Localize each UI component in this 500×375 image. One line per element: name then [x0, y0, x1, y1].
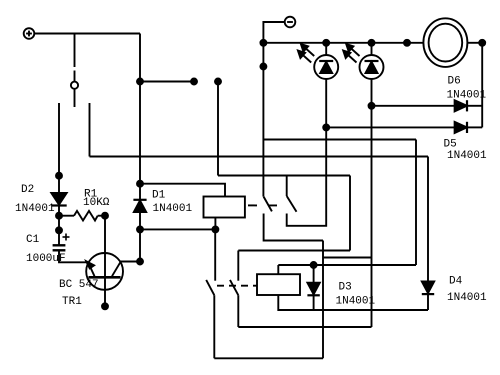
- svg-text:1N4001: 1N4001: [447, 150, 487, 162]
- resistor R1: [59, 211, 105, 221]
- wire x=323: [322, 241, 324, 359]
- svg-text:D4: D4: [449, 276, 463, 288]
- node coil1 bottom junction: [212, 226, 218, 232]
- LED2: [343, 43, 383, 79]
- svg-text:D6: D6: [448, 76, 461, 88]
- node D1 bottom: [137, 226, 143, 232]
- wire C1 bottom to emitter: [59, 250, 87, 262]
- node bus LED2: [369, 40, 375, 46]
- svg-text:1N4001: 1N4001: [447, 292, 487, 304]
- plus terminal: [24, 28, 35, 39]
- svg-text:1N4001: 1N4001: [336, 296, 376, 308]
- switch SW-D blade: [230, 280, 238, 295]
- node bus right corner: [479, 40, 485, 46]
- node C1 top: [56, 227, 62, 233]
- wire coil2 top lead: [277, 265, 279, 274]
- relay coil 1: [204, 197, 245, 218]
- wire y=139.5: [263, 139, 416, 141]
- svg-text:1N4001: 1N4001: [447, 90, 487, 102]
- svg-text:1N4001: 1N4001: [153, 203, 193, 215]
- wire positive rail down x=140: [139, 34, 141, 184]
- switch SW-B blade: [287, 196, 297, 212]
- bus top rail: [263, 42, 423, 44]
- capacitor C1: [53, 216, 70, 251]
- node terminal x=218: [215, 79, 221, 85]
- node D3 top: [311, 262, 317, 268]
- diode D3: [307, 265, 319, 310]
- pushbutton S1: [71, 34, 78, 108]
- node R1 right / base junction: [102, 213, 108, 219]
- wire coil2 bottom lead: [278, 295, 428, 310]
- node collector junction: [137, 259, 143, 265]
- node junction D2 top: [56, 173, 62, 179]
- switch SW-C blade: [206, 280, 214, 295]
- wire y=250.5: [238, 250, 350, 252]
- svg-text:D5: D5: [444, 139, 457, 151]
- node D1 top: [137, 181, 143, 187]
- diode D2: [51, 176, 66, 216]
- svg-text:1000uF: 1000uF: [26, 253, 66, 265]
- diode D4: [422, 282, 434, 311]
- node bus mid: [404, 40, 410, 46]
- wire SW-B bottom: [287, 79, 327, 226]
- node junction D2/R1/C1: [56, 213, 62, 219]
- wire x=350: [349, 176, 351, 251]
- wire SW-D bottom: [237, 295, 239, 327]
- wire x=416 down: [415, 140, 417, 266]
- switch SW-D top: [237, 251, 239, 281]
- node stub right: [191, 79, 197, 85]
- wire top-left rail: [34, 33, 140, 35]
- svg-text:TR1: TR1: [62, 296, 82, 308]
- svg-text:10KΩ: 10KΩ: [83, 197, 110, 209]
- wire D1 to coil1 top: [140, 184, 225, 197]
- wire pushbutton left contact to D2: [58, 103, 60, 176]
- wire link y=257.5: [323, 257, 372, 259]
- bus right segment: [468, 42, 483, 44]
- wire SW-A bottom: [264, 214, 323, 241]
- wire y=327: [238, 326, 371, 328]
- wire minus to rail: [263, 22, 284, 197]
- diode D1: [133, 184, 146, 262]
- wire base lead down through TR1: [104, 216, 106, 307]
- node base bottom terminal: [102, 303, 108, 309]
- svg-text:D3: D3: [339, 282, 352, 294]
- wire y=229.4 to D1: [140, 228, 215, 230]
- wire y=265 coil2 top rail: [278, 264, 416, 266]
- diode D6-1N4001 (upper right): [372, 100, 483, 111]
- svg-text:C1: C1: [26, 234, 40, 246]
- wire bottom rail y=358.3: [214, 357, 323, 359]
- motor D6: [423, 18, 467, 67]
- switch SW-B top: [286, 176, 288, 197]
- svg-text:D1: D1: [152, 190, 166, 202]
- wire LED2 down x=371.5: [371, 79, 373, 327]
- wire coil1 bottom lead: [214, 218, 216, 230]
- node stub left: [137, 79, 143, 85]
- wire x=218 down: [217, 82, 219, 176]
- wire stub y=81.5: [140, 81, 194, 83]
- linkage relay2 (dashed): [217, 285, 257, 287]
- wire x=428 with D4: [427, 157, 429, 282]
- diode D5 (lower right): [326, 122, 482, 133]
- svg-text:BC 547: BC 547: [59, 279, 99, 291]
- switch SW-C top: [214, 229, 216, 280]
- wire collector to D1 line: [121, 261, 140, 263]
- wire SW-C bottom: [213, 295, 215, 358]
- LED1: [298, 43, 338, 79]
- node LED1/D5 junction: [323, 124, 329, 130]
- wire long y=156.5: [90, 156, 429, 158]
- svg-text:1N4001: 1N4001: [15, 203, 55, 215]
- wire y=175.5: [218, 175, 350, 177]
- wire pushbutton right contact: [89, 103, 91, 157]
- linkage relay1 (dashed): [248, 204, 280, 206]
- relay coil 2: [257, 274, 300, 295]
- svg-text:D2: D2: [21, 184, 34, 196]
- node bus LED1: [323, 40, 329, 46]
- transistor TR1 BC547: [86, 253, 123, 290]
- switch SW-A blade: [264, 197, 272, 212]
- wire right vertical x=482.2: [481, 43, 483, 128]
- node bus left: [260, 40, 266, 46]
- minus terminal: [285, 17, 296, 28]
- node LED2/D6 junction: [369, 103, 375, 109]
- node minus rail: [260, 64, 266, 70]
